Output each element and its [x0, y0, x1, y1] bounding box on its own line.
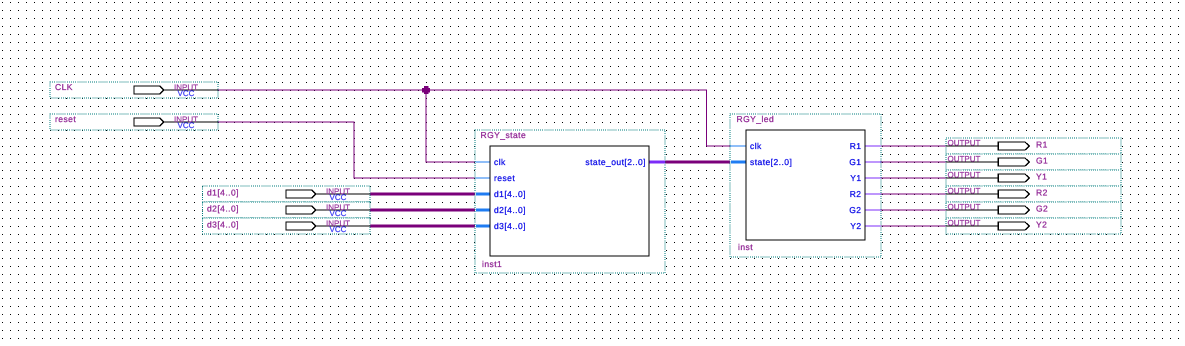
block body: [490, 146, 649, 256]
port stub state_out bus: [649, 160, 665, 163]
port stub Y2: [865, 225, 881, 227]
svg-text:OUTPUT: OUTPUT: [948, 187, 981, 196]
svg-text:G2: G2: [849, 205, 861, 215]
input pin reset: [50, 114, 218, 130]
port stub state bus: [731, 160, 747, 163]
bus d1 wire: [370, 193, 476, 196]
bus d2 wire: [370, 209, 476, 212]
wire R2: [881, 193, 946, 195]
port stub G1: [865, 161, 881, 163]
output pin G2: [946, 202, 1121, 218]
input pin d1[4..0]: [203, 186, 371, 202]
input pin d2[4..0]: [203, 202, 371, 218]
svg-text:VCC: VCC: [330, 209, 347, 218]
port stub clk: [730, 145, 746, 147]
output pin Y1: [946, 170, 1121, 186]
wire Y2: [881, 225, 946, 227]
svg-text:G1: G1: [849, 157, 861, 167]
svg-text:OUTPUT: OUTPUT: [948, 155, 981, 164]
svg-text:OUTPUT: OUTPUT: [948, 203, 981, 212]
svg-text:Y2: Y2: [1036, 220, 1047, 230]
svg-text:OUTPUT: OUTPUT: [948, 171, 981, 180]
bus state_out to state wire: [665, 161, 731, 164]
svg-text:CLK: CLK: [55, 82, 73, 92]
output pin G1: [946, 154, 1121, 170]
wire CLK net: pin to corner above RGY_led: [218, 90, 730, 146]
block RGY_state U1: [475, 130, 665, 273]
svg-text:Y2: Y2: [850, 221, 861, 231]
svg-text:inst: inst: [738, 242, 753, 252]
wire CLK branch down to RGY_state clk: [426, 90, 476, 162]
port stub d3 bus: [476, 224, 491, 227]
svg-text:OUTPUT: OUTPUT: [948, 219, 981, 228]
svg-text:G1: G1: [1036, 156, 1048, 166]
svg-text:R1: R1: [850, 141, 862, 151]
svg-text:clk: clk: [750, 141, 762, 151]
svg-text:state[2..0]: state[2..0]: [750, 157, 792, 167]
svg-text:R2: R2: [1036, 188, 1048, 198]
input pin CLK: [50, 82, 218, 98]
input pin d3[4..0]: [203, 218, 371, 234]
svg-text:RGY_led: RGY_led: [737, 114, 775, 124]
svg-text:inst1: inst1: [482, 259, 502, 269]
wire reset net: [218, 122, 476, 178]
svg-text:VCC: VCC: [178, 121, 195, 130]
output pin Y2: [946, 218, 1121, 234]
block RGY_led U2: [730, 114, 881, 257]
svg-text:d2[4..0]: d2[4..0]: [494, 205, 526, 215]
svg-text:RGY_state: RGY_state: [481, 130, 527, 140]
svg-text:Y1: Y1: [1036, 172, 1047, 182]
svg-text:reset: reset: [55, 114, 76, 124]
svg-text:OUTPUT: OUTPUT: [948, 139, 981, 148]
svg-text:clk: clk: [494, 157, 506, 167]
svg-text:d1[4..0]: d1[4..0]: [494, 189, 526, 199]
output pin R2: [946, 186, 1121, 202]
wire R1: [881, 145, 946, 147]
svg-text:Y1: Y1: [850, 173, 861, 183]
svg-text:G2: G2: [1036, 204, 1048, 214]
svg-text:d3[4..0]: d3[4..0]: [207, 220, 239, 230]
svg-text:VCC: VCC: [330, 193, 347, 202]
svg-text:R1: R1: [1036, 140, 1048, 150]
junction on CLK net: [422, 86, 430, 94]
svg-text:VCC: VCC: [330, 225, 347, 234]
block body: [746, 130, 865, 240]
svg-text:d1[4..0]: d1[4..0]: [207, 188, 239, 198]
port stub d2 bus: [476, 208, 491, 211]
svg-text:d2[4..0]: d2[4..0]: [207, 204, 239, 214]
port stub clk: [476, 161, 491, 163]
port stub Y1: [865, 177, 881, 179]
svg-text:state_out[2..0]: state_out[2..0]: [585, 157, 646, 167]
svg-text:reset: reset: [494, 173, 515, 183]
svg-text:VCC: VCC: [178, 89, 195, 98]
port stub d1 bus: [476, 192, 491, 195]
port stub R2: [865, 193, 881, 195]
svg-text:d3[4..0]: d3[4..0]: [494, 221, 526, 231]
wire Y1: [881, 177, 946, 179]
svg-text:R2: R2: [850, 189, 862, 199]
port stub R1: [865, 145, 881, 147]
port stub reset: [476, 177, 491, 179]
wire G2: [881, 209, 946, 211]
output pin R1: [946, 138, 1121, 154]
bus d3 wire: [370, 225, 476, 228]
port stub G2: [865, 209, 881, 211]
wire G1: [881, 161, 946, 163]
